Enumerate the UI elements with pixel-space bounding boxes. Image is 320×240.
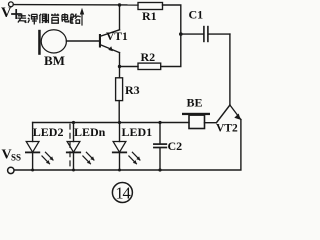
svg-text:VT2: VT2 xyxy=(216,123,238,135)
terminal V+ xyxy=(9,2,14,7)
figure number 14 xyxy=(112,183,132,203)
svg-text:VT1: VT1 xyxy=(106,31,128,43)
svg-text:R3: R3 xyxy=(125,83,140,97)
wire BM to VT1 base xyxy=(66,40,99,42)
resistor R1 xyxy=(138,3,163,10)
node top rail / collector xyxy=(118,3,121,6)
terminal VSS xyxy=(8,167,14,173)
capacitor C2 xyxy=(154,123,166,171)
wire node to R3 xyxy=(119,67,121,78)
transistor VT1 xyxy=(99,30,120,53)
svg-text:V: V xyxy=(1,5,12,21)
node C2 bottom xyxy=(158,168,161,171)
node LEDn top xyxy=(72,121,75,124)
svg-text:R2: R2 xyxy=(141,50,156,64)
resistor R3 xyxy=(116,78,123,101)
svg-text:14: 14 xyxy=(115,184,130,203)
microphone BM xyxy=(38,30,66,55)
node C2 top xyxy=(158,121,161,124)
earphone BE xyxy=(182,113,210,129)
node R1/C1 branch xyxy=(179,32,183,36)
svg-text:LED2: LED2 xyxy=(33,125,64,139)
svg-text:BE: BE xyxy=(187,96,203,110)
label 去消侧音电路 (fake glyph strokes) xyxy=(17,13,80,24)
wire BE to VT2 base xyxy=(205,122,217,124)
wire top rail xyxy=(13,4,138,6)
wire LED top rail xyxy=(33,122,189,124)
wire node to R2 left xyxy=(120,66,139,68)
svg-text:LEDn: LEDn xyxy=(74,125,106,139)
wire R1 right to corner xyxy=(163,5,181,34)
node LED2 bottom xyxy=(31,169,34,172)
LED LEDn xyxy=(67,123,95,171)
LED LED2 xyxy=(26,123,54,171)
svg-text:C1: C1 xyxy=(189,8,204,22)
svg-text:R1: R1 xyxy=(142,9,157,23)
label VSS xyxy=(2,147,22,162)
node emitter / R2 / R3 xyxy=(118,65,121,68)
node LED1 bottom xyxy=(118,169,121,172)
wire R3 to LED rail xyxy=(118,101,120,123)
wire VT1 emitter down xyxy=(119,53,121,67)
ellipsis dashed line xyxy=(69,124,71,169)
arrow to sidetone circuit xyxy=(80,8,84,25)
wire VT2 emitter to bottom rail xyxy=(15,120,241,170)
svg-text:C2: C2 xyxy=(168,139,183,153)
svg-text:LED1: LED1 xyxy=(122,125,153,139)
svg-text:SS: SS xyxy=(11,153,21,163)
svg-text:BM: BM xyxy=(44,53,65,68)
transistor VT2 xyxy=(216,105,241,123)
wire VT1 collector to top rail xyxy=(119,5,121,30)
node R3/LED1 top xyxy=(118,121,121,124)
wire branch down to R2 xyxy=(161,34,181,66)
capacitor C1 xyxy=(181,27,230,42)
LED LED1 xyxy=(113,123,141,171)
resistor R2 xyxy=(138,63,161,69)
wire C1 to VT2 collector xyxy=(229,34,231,105)
node LEDn bottom xyxy=(72,169,75,172)
